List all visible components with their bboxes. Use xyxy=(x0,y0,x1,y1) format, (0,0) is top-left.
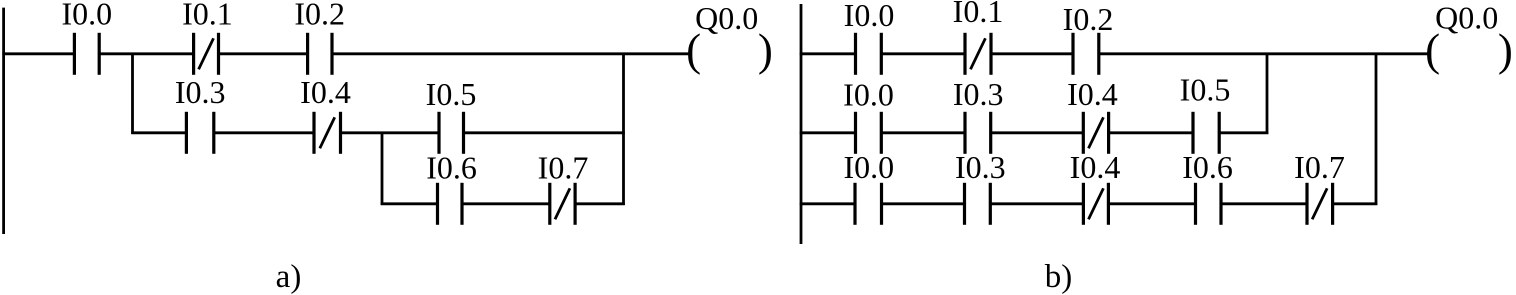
wire rung3 b: I0.6 to I0.7 xyxy=(1221,202,1307,205)
wire rung1 a: I0.2 to coil xyxy=(332,52,689,55)
svg-text:I0.7: I0.7 xyxy=(538,150,589,186)
coil Q0.0 (b) xyxy=(1425,25,1513,75)
wire rung1 b: I0.1 to I0.2 xyxy=(991,52,1073,55)
wire rung3 b: I0.7 to merge rail xyxy=(1333,202,1378,205)
left power rail (a) xyxy=(2,8,5,234)
contact I0.3 (NO) rung3 b xyxy=(965,183,991,225)
contact I0.0 (NO) rung1 a xyxy=(74,33,99,75)
svg-text:I0.2: I0.2 xyxy=(294,0,345,31)
wire rung2 a: I0.5 to merge rail xyxy=(464,131,625,134)
contact I0.0 (NO) rung1 b xyxy=(856,33,882,75)
contact I0.4 (NC) rung2 a xyxy=(314,112,341,154)
svg-text:a): a) xyxy=(276,259,302,295)
contact I0.3 (NO) rung2 b xyxy=(965,112,991,154)
svg-text:I0.3: I0.3 xyxy=(955,149,1006,185)
svg-text:I0.6: I0.6 xyxy=(1182,149,1233,185)
merge rail rung3 b: vertical up to rung1 xyxy=(1375,53,1378,205)
svg-text:Q0.0: Q0.0 xyxy=(695,0,758,36)
contact I0.2 (NO) rung1 a xyxy=(308,33,332,75)
wire rung3 b: I0.4 to I0.6 xyxy=(1108,202,1195,205)
coil Q0.0 (a) xyxy=(686,25,773,75)
node C branch wire (a): rung2 down to rung3 xyxy=(381,132,384,205)
contact I0.5 (NO) rung2 b xyxy=(1193,112,1219,154)
contact I0.0 (NO) rung3 b xyxy=(855,183,882,225)
contact I0.1 (NC) rung1 a xyxy=(194,33,219,75)
wire rung3 a: branch to I0.6 xyxy=(381,202,438,205)
wire rung2 b: rail to I0.0 xyxy=(800,131,856,134)
wire rung3 a: I0.6 to I0.7 xyxy=(462,202,550,205)
contact I0.0 (NO) rung2 b xyxy=(856,112,882,154)
svg-text:Q0.0: Q0.0 xyxy=(1435,0,1498,35)
svg-text:I0.4: I0.4 xyxy=(1067,76,1118,112)
wire rung3 b: I0.0 to I0.3 xyxy=(882,202,965,205)
contact I0.4 (NC) rung2 b xyxy=(1083,112,1108,154)
svg-text:I0.3: I0.3 xyxy=(953,76,1004,112)
svg-text:I0.0: I0.0 xyxy=(843,149,894,185)
merge rail (a): vertical joining rung1, rung2, rung3 xyxy=(622,53,625,205)
wire rung2 b: I0.3 to I0.4 xyxy=(991,131,1084,134)
svg-text:b): b) xyxy=(1045,259,1073,295)
contact I0.2 (NO) rung1 b xyxy=(1073,33,1099,75)
svg-text:I0.7: I0.7 xyxy=(1294,149,1345,185)
svg-text:): ) xyxy=(1498,25,1513,75)
wire rung2 b: I0.5 to merge rail xyxy=(1219,131,1268,134)
wire rung1 a: rail to I0.0 xyxy=(2,52,74,55)
wire rung3 a: I0.7 to merge rail xyxy=(575,202,625,205)
left power rail (b) xyxy=(800,4,803,244)
svg-text:I0.6: I0.6 xyxy=(426,150,477,186)
node A branch wire (a): rung1 down to rung2 xyxy=(131,53,134,134)
svg-text:I0.2: I0.2 xyxy=(1063,1,1114,37)
contact I0.4 (NC) rung3 b xyxy=(1083,183,1108,225)
wire rung2 a: I0.4 to I0.5 xyxy=(341,131,440,134)
wire rung3 b: I0.3 to I0.4 xyxy=(990,202,1083,205)
wire rung1 a: I0.0 to I0.1 xyxy=(99,52,193,55)
contact I0.5 (NO) rung2 a xyxy=(439,112,464,154)
svg-text:I0.0: I0.0 xyxy=(843,76,894,112)
wire rung2 a: branch to I0.3 xyxy=(131,131,186,134)
contact I0.6 (NO) rung3 a xyxy=(438,183,463,225)
wire rung1 b: I0.2 to coil xyxy=(1099,52,1428,55)
wire rung1 b: I0.0 to I0.1 xyxy=(881,52,965,55)
svg-text:I0.1: I0.1 xyxy=(182,0,233,31)
contact I0.3 (NO) rung2 a xyxy=(186,112,213,154)
svg-text:I0.1: I0.1 xyxy=(953,0,1004,29)
svg-text:I0.5: I0.5 xyxy=(426,76,477,112)
svg-text:I0.0: I0.0 xyxy=(61,0,112,31)
svg-text:I0.3: I0.3 xyxy=(175,74,226,110)
wire rung3 b: rail to I0.0 xyxy=(800,202,855,205)
svg-text:I0.4: I0.4 xyxy=(1070,149,1121,185)
svg-text:I0.4: I0.4 xyxy=(300,74,351,110)
svg-text:): ) xyxy=(758,25,773,75)
wire rung2 a: I0.3 to I0.4 xyxy=(214,131,314,134)
wire rung1 b: rail to I0.0 xyxy=(800,52,856,55)
wire rung2 b: I0.4 to I0.5 xyxy=(1109,131,1193,134)
wire rung1 a: I0.1 to I0.2 xyxy=(219,52,308,55)
contact I0.1 (NC) rung1 b xyxy=(965,33,991,75)
svg-text:I0.0: I0.0 xyxy=(844,0,895,33)
contact I0.7 (NC) rung3 b xyxy=(1307,183,1333,225)
contact I0.7 (NC) rung3 a xyxy=(550,183,575,225)
merge rail rung2 b: vertical up to rung1 xyxy=(1266,53,1269,134)
contact I0.6 (NO) rung3 b xyxy=(1196,183,1222,225)
svg-text:I0.5: I0.5 xyxy=(1180,72,1231,108)
wire rung2 b: I0.0 to I0.3 xyxy=(881,131,965,134)
